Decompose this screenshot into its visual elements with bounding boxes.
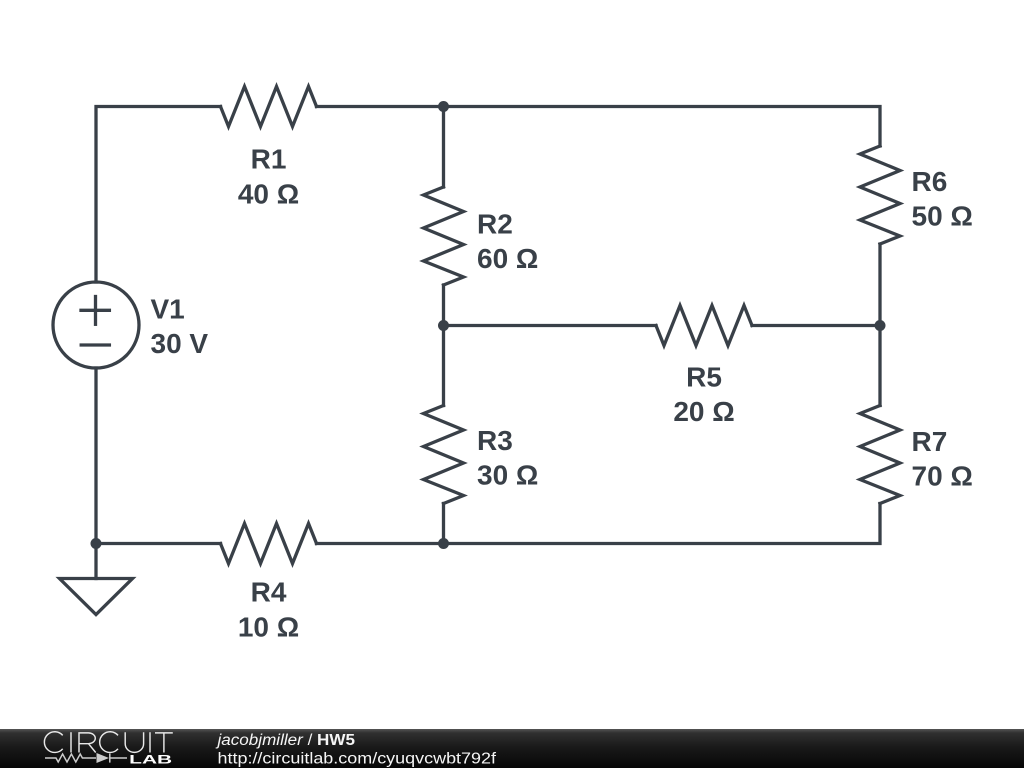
resistor R3: [424, 406, 464, 504]
node G junction dot: [91, 538, 102, 549]
svg-text:LAB: LAB: [129, 752, 173, 766]
svg-text:40 Ω: 40 Ω: [238, 179, 299, 210]
wire node A to top-right corner: [444, 107, 881, 147]
V1 minus sign: [81, 343, 109, 346]
wire node G to ground: [94, 544, 97, 579]
svg-text:R4: R4: [251, 577, 287, 608]
svg-text:30 V: 30 V: [151, 328, 209, 359]
logo diode triangle: [97, 753, 110, 763]
resistor R7: [860, 406, 900, 504]
svg-text:R5: R5: [686, 362, 722, 393]
wire R1 to node A: [317, 105, 444, 108]
wire top-left: V1 top to R1: [96, 107, 221, 283]
wire node B to R3: [442, 326, 445, 406]
resistor R6: [860, 146, 900, 244]
wire node B to R5: [444, 324, 657, 327]
wire R3 to node C: [442, 504, 445, 544]
svg-text:jacobjmiller / HW5: jacobjmiller / HW5: [215, 732, 355, 749]
node D junction dot: [875, 320, 886, 331]
resistor R5: [656, 306, 752, 346]
svg-text:V1: V1: [151, 294, 185, 325]
node A junction dot: [438, 101, 449, 112]
resistor R2: [424, 187, 464, 285]
svg-text:R6: R6: [912, 166, 948, 197]
wire R5 to node D: [752, 324, 880, 327]
resistor R1: [221, 87, 317, 127]
wire R6 to node D: [878, 244, 881, 326]
logo doodle: wire-resistor-diode-wire: [45, 753, 127, 762]
wire R4 to node G: [96, 542, 221, 545]
wire node D to R7: [878, 326, 881, 406]
svg-text:R1: R1: [251, 144, 287, 175]
svg-text:20 Ω: 20 Ω: [673, 396, 734, 427]
node C junction dot: [438, 538, 449, 549]
svg-text:http://circuitlab.com/cyuqvcwb: http://circuitlab.com/cyuqvcwbt792f: [218, 750, 497, 767]
svg-text:70 Ω: 70 Ω: [912, 461, 973, 492]
svg-text:R2: R2: [477, 209, 513, 240]
wire node A to R2: [442, 107, 445, 188]
wire R7 to bottom-right corner: [317, 504, 881, 544]
svg-text:10 Ω: 10 Ω: [238, 612, 299, 643]
V1 plus sign horizontal stroke: [81, 309, 109, 312]
V1 plus sign vertical stroke: [94, 297, 97, 325]
svg-text:30 Ω: 30 Ω: [477, 460, 538, 491]
wire R2 to node B: [442, 285, 445, 326]
resistor R4: [221, 524, 317, 564]
svg-text:R3: R3: [477, 425, 513, 456]
voltage source V1: [53, 282, 139, 368]
wire V1 bottom to ground node: [94, 368, 97, 544]
logo CIRCUIT (thin letters): [44, 732, 172, 753]
ground: [60, 579, 133, 615]
svg-text:R7: R7: [912, 426, 948, 457]
node B junction dot: [438, 320, 449, 331]
svg-text:60 Ω: 60 Ω: [477, 243, 538, 274]
svg-text:50 Ω: 50 Ω: [912, 201, 973, 232]
